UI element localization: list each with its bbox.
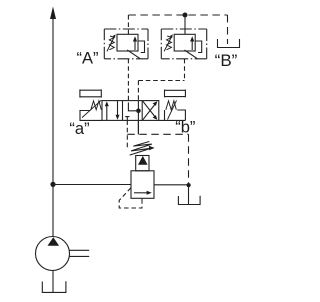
pump P1 circle <box>36 237 70 271</box>
solenoid b proportional diagonal <box>168 100 177 119</box>
box3 crossed flow arrow 2 <box>143 101 156 118</box>
box2 pilot entry elbow from valve A <box>128 103 136 111</box>
wire: branch from main line to main relief valve inlet <box>53 184 131 186</box>
box2 blocked port T symbol <box>125 117 129 121</box>
wire: dashed drain line to right <box>127 133 188 135</box>
solenoid b spring <box>166 101 177 110</box>
main relief valve RV body <box>131 171 154 199</box>
main relief valve adjustable spring <box>130 142 152 156</box>
wire: dashed jog connecting valve B pilot to center feed <box>138 80 184 82</box>
node: flow direction arrowhead at top of main line <box>50 7 56 20</box>
solenoid b box <box>159 110 186 120</box>
relief valve B body square <box>174 34 195 51</box>
wire: valve A pilot dashed line down to directional valve <box>127 59 129 103</box>
relief valve B pilot sense loop <box>195 41 202 53</box>
tank T2 (pilot drain tank B) <box>218 39 240 48</box>
pump P1 drive shaft double line <box>69 249 89 251</box>
box3 crossed flow arrow 1 <box>143 103 156 120</box>
box1 straight flow arrow down <box>117 101 119 118</box>
tank T3 bottom right <box>178 196 200 205</box>
relief valve B drain diagonal <box>184 50 197 59</box>
solenoid a spring <box>91 101 102 110</box>
main relief valve internal flow arrow <box>134 192 149 194</box>
relief valve A pilot sense loop <box>138 41 145 53</box>
wire: pilot drain from center box down <box>137 120 139 134</box>
solenoid a proportional diagonal <box>82 100 101 117</box>
svg-text:“B”: “B” <box>215 51 238 70</box>
directional valve V1 position divider right <box>141 101 143 121</box>
wire: drop into tank T3 <box>188 185 190 204</box>
enclosure of pilot relief valve A (dash-dot box) <box>104 28 148 30</box>
wire: dashed drop to tank B <box>227 15 229 44</box>
tank T1 below pump <box>42 281 66 292</box>
wire: top pilot drain dashed line <box>128 14 227 16</box>
svg-text:“A”: “A” <box>77 50 99 68</box>
relief valve A flow arrow <box>134 39 136 51</box>
node: junction dot at tank branch <box>187 183 191 187</box>
wire: dashed vent line from valve T port to main relief spring <box>126 120 128 149</box>
relief valve A body square <box>117 34 138 51</box>
wire: valve B pilot dashed line down <box>184 59 186 81</box>
wire: pump suction line <box>52 270 54 292</box>
main relief valve internal pilot dashed loop <box>119 188 142 208</box>
node: junction dot in center position <box>136 109 141 114</box>
main relief valve drain stub <box>141 198 143 201</box>
main relief valve poppet triangle <box>138 156 148 165</box>
relief valve A drain diagonal <box>127 50 140 59</box>
directional valve V1 position divider left <box>122 101 124 121</box>
svg-text:“a”: “a” <box>69 120 89 138</box>
relief valve B flow arrow <box>191 39 193 51</box>
wire: relief valve outlet to tank junction <box>154 184 189 186</box>
box1 straight flow arrow up <box>106 103 108 120</box>
main relief valve pilot cap <box>136 156 149 171</box>
box2 vertical pilot through-line <box>137 101 139 135</box>
node: junction dot on pilot drain line <box>183 13 188 18</box>
enclosure of pilot relief valve B (dash-dot box) <box>161 28 206 30</box>
directional valve V1 body <box>102 101 159 121</box>
wire: dashed drain drop to bottom junction <box>188 134 190 185</box>
wire: dashed riser from top pilot line down to valve A <box>127 15 129 34</box>
solenoid a coil rectangle <box>80 89 101 97</box>
relief valve B adjustable spring <box>167 36 172 50</box>
solenoid a box <box>80 111 102 121</box>
wire: solid riser from pilot drain junction down to valve B <box>184 15 186 34</box>
pump P1 outlet triangle <box>48 237 60 246</box>
node: junction dot main line to relief valve branch <box>50 182 55 187</box>
solenoid b coil rectangle <box>165 90 186 98</box>
relief valve A adjustable spring <box>109 36 114 50</box>
wire: main pump pressure line vertical x=53 <box>52 17 54 237</box>
